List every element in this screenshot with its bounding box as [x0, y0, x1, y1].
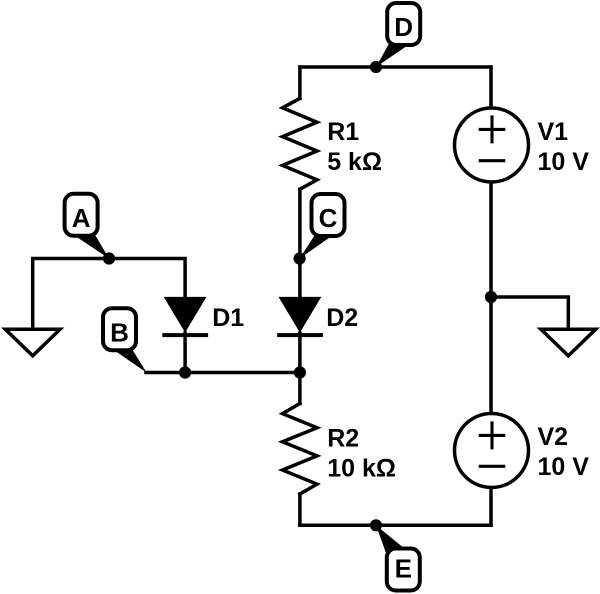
junction dot D2-B — [294, 366, 306, 378]
pointer wedge B — [116, 349, 147, 373]
wire R1 bottom to node C to diode D2 — [298, 189, 302, 297]
svg-text:5 kΩ: 5 kΩ — [327, 148, 382, 176]
pointer wedge D — [376, 45, 406, 68]
svg-text:10 kΩ: 10 kΩ — [327, 455, 396, 483]
flag badge A — [65, 194, 98, 236]
svg-text:A: A — [72, 203, 91, 233]
ground arrow left — [5, 329, 60, 356]
junction dot right mid — [485, 291, 497, 303]
svg-text:10 V: 10 V — [538, 453, 590, 481]
resistor R2 — [283, 404, 318, 495]
ground arrow right — [541, 329, 596, 356]
svg-text:D: D — [394, 12, 413, 42]
pointer wedge E — [376, 525, 405, 555]
wire D1 cathode lead — [183, 333, 187, 373]
junction dot D1-B — [179, 366, 191, 378]
wire top rail node D — [300, 65, 491, 69]
flag badge C — [312, 194, 345, 236]
svg-text:V2: V2 — [538, 423, 569, 451]
svg-text:B: B — [110, 317, 129, 347]
wire D2 cathode to node B rail — [298, 333, 302, 373]
node dot C — [294, 252, 306, 264]
wire node B rail — [146, 371, 300, 375]
pointer wedge C — [300, 236, 329, 259]
wire bottom rail node E — [300, 524, 491, 528]
resistor R1 — [283, 98, 318, 189]
flag badge D — [387, 3, 420, 45]
voltage source V2 — [455, 414, 529, 488]
flag badge B — [103, 308, 136, 350]
svg-text:D2: D2 — [326, 304, 358, 332]
node dot E — [370, 519, 382, 531]
wire node A rail and left drop — [33, 259, 185, 328]
wire right ground branch — [491, 297, 568, 328]
wire R1 top lead — [298, 67, 302, 98]
svg-text:R2: R2 — [327, 425, 359, 453]
voltage source V1 — [455, 108, 529, 182]
wire R2 bottom lead — [298, 494, 302, 525]
svg-text:E: E — [395, 553, 412, 583]
svg-text:R1: R1 — [327, 118, 359, 146]
flag badge E — [387, 549, 420, 591]
diode D2 — [277, 297, 323, 337]
node dot D — [370, 61, 382, 73]
svg-text:D1: D1 — [212, 304, 244, 332]
wire V1 bottom to V2 top — [489, 184, 493, 412]
svg-text:V1: V1 — [538, 118, 569, 146]
wire V1 top lead — [489, 67, 493, 107]
node dot A — [103, 252, 115, 264]
svg-text:10 V: 10 V — [538, 148, 590, 176]
svg-text:C: C — [319, 203, 338, 233]
wire R2 top lead — [298, 373, 302, 404]
pointer wedge A — [76, 234, 109, 259]
wire V2 bottom lead — [489, 489, 493, 526]
diode D1 — [162, 297, 208, 337]
